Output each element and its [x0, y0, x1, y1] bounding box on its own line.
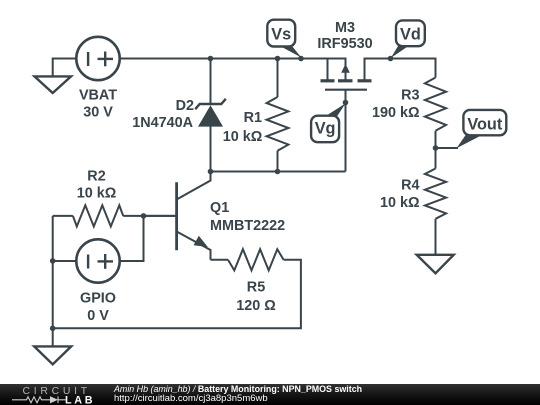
node Vg flag pointer [325, 103, 346, 116]
node Vg flag box [311, 116, 339, 143]
transistor Q1 base bar [175, 182, 178, 250]
zener D2 body triangle [198, 105, 223, 126]
resistor R2 zigzag [73, 205, 123, 226]
transistor Q1 collector [177, 172, 211, 200]
svg-text:D2: D2 [176, 98, 194, 114]
VBAT plus sign [98, 58, 114, 60]
svg-text:Vd: Vd [400, 25, 421, 43]
junction bottom rail / D2 / Q1 collector [208, 169, 214, 175]
wire top rail to D2 cathode [210, 59, 212, 105]
node Vs junction [298, 56, 304, 62]
wire to ground (GPIO) [52, 328, 54, 346]
transistor M3 channel bars [321, 79, 372, 82]
svg-text:Vout: Vout [467, 115, 503, 133]
node Vd junction [388, 56, 394, 62]
svg-text:M3: M3 [335, 20, 355, 36]
node Vout junction [433, 145, 439, 151]
ground (VBAT) [35, 76, 72, 93]
ground (below R4) [417, 255, 454, 273]
svg-text:MMBT2222: MMBT2222 [210, 218, 285, 234]
junction top rail / D2 [208, 56, 214, 62]
junction left rail / ground [50, 326, 56, 332]
svg-text:Vs: Vs [271, 25, 291, 43]
svg-text:Vg: Vg [315, 119, 336, 137]
transistor M3 gate plate [325, 89, 367, 91]
svg-text:120 Ω: 120 Ω [236, 298, 276, 314]
node Vout flag box [463, 110, 506, 135]
wire R2 left lead [53, 215, 73, 217]
ground (GPIO) [34, 346, 71, 364]
transistor Q1 emitter [177, 232, 211, 260]
junction R2 / GPIO / Q1 base [141, 213, 147, 219]
wire R1 to bottom rail [277, 151, 279, 172]
node Vs flag box [267, 20, 295, 47]
transistor Q1 emitter arrow [194, 236, 208, 247]
transistor M3 source stub [327, 59, 329, 80]
node Vd flag box [396, 20, 425, 46]
wire bottom rail D2/R1/gate [211, 171, 346, 173]
wire Vout tap [436, 147, 459, 149]
CircuitLab logo waveform resistor [12, 397, 66, 404]
svg-text:R4: R4 [401, 178, 419, 194]
wire left vertical rail [52, 216, 54, 328]
node Vg junction [343, 100, 349, 106]
svg-text:R3: R3 [401, 87, 419, 103]
footer bar [0, 384, 540, 405]
zener D2 cathode bar [195, 99, 226, 109]
wire Q1 base [144, 215, 177, 217]
wire D2 anode to bottom rail [210, 127, 212, 172]
svg-text:R5: R5 [247, 280, 265, 296]
voltage source GPIO circle [76, 239, 119, 282]
wire Q1 emitter to R5 [211, 259, 229, 261]
junction bottom rail / R1 [275, 169, 281, 175]
svg-text:0 V: 0 V [87, 308, 109, 324]
wire top rail to R1 [277, 59, 279, 98]
wire GPIO minus lead [53, 260, 77, 262]
svg-text:190 kΩ: 190 kΩ [372, 105, 420, 121]
node Vout flag pointer [457, 135, 484, 149]
svg-text:Q1: Q1 [210, 200, 229, 216]
wire R4 to ground [435, 219, 437, 255]
wire top rail VBAT to M3 [120, 59, 346, 80]
CircuitLab logo diode [50, 396, 58, 403]
node Vs flag pointer [279, 46, 301, 58]
VBAT minus sign [87, 52, 89, 66]
resistor R5 zigzag [228, 249, 284, 270]
svg-text:GPIO: GPIO [80, 290, 116, 306]
voltage source VBAT circle [76, 37, 119, 80]
wire R3 to R4 [435, 131, 437, 169]
wire VBAT minus lead to ground [53, 59, 76, 77]
node Vd flag pointer [391, 45, 410, 58]
transistor M3 body arrow [341, 64, 350, 73]
svg-text:1N4740A: 1N4740A [132, 115, 193, 131]
resistor R4 zigzag [425, 169, 446, 219]
resistor R3 zigzag [425, 78, 446, 131]
GPIO minus sign [87, 255, 89, 269]
svg-text:IRF9530: IRF9530 [317, 36, 372, 52]
junction left rail / GPIO [50, 258, 56, 264]
resistor R1 zigzag [267, 97, 289, 151]
svg-text:10 kΩ: 10 kΩ [380, 195, 420, 211]
wire R2 right lead to Q1 base [123, 215, 176, 217]
svg-text:LAB: LAB [65, 394, 95, 405]
wire GPIO plus lead up to base node [120, 216, 144, 261]
svg-text:10 kΩ: 10 kΩ [223, 129, 263, 145]
wire M3 gate down to D2/R1 rail [345, 90, 347, 172]
svg-text:R2: R2 [87, 169, 105, 185]
junction top rail / R1 [275, 56, 281, 62]
transistor M3 drain stub and wire to R3 [365, 59, 436, 80]
svg-text:R1: R1 [244, 110, 262, 126]
GPIO plus sign [98, 260, 114, 262]
svg-text:30 V: 30 V [83, 105, 113, 121]
wire R5 to bottom return rail [53, 260, 301, 329]
svg-text:VBAT: VBAT [79, 88, 117, 104]
svg-text:10 kΩ: 10 kΩ [77, 186, 117, 202]
